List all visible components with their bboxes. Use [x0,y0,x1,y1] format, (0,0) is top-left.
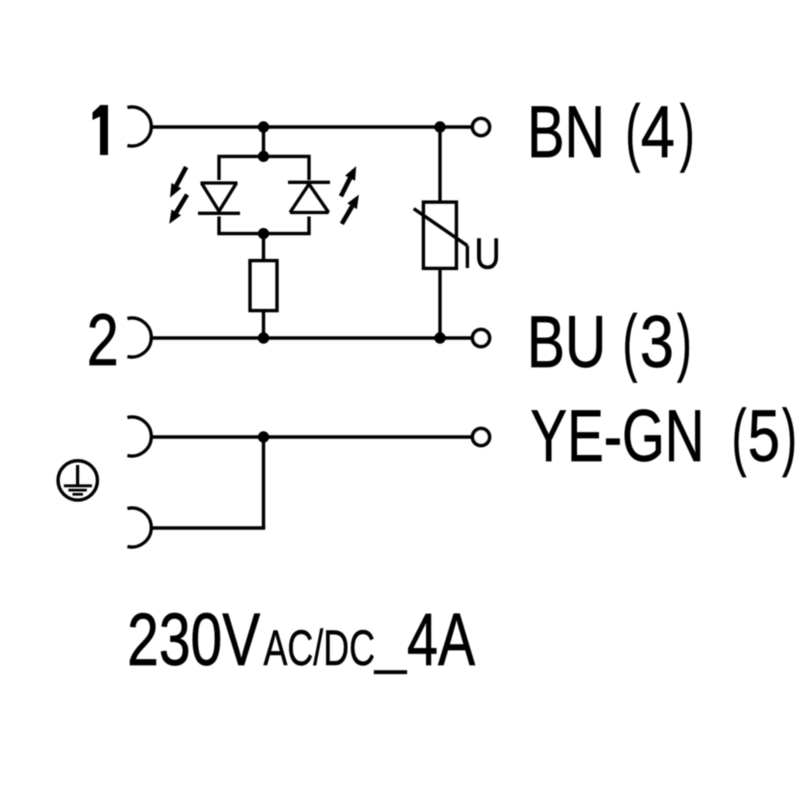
svg-text:(: ( [732,395,747,478]
svg-text:(: ( [623,300,638,383]
resistor R1 [250,261,277,311]
node junction PE wires [258,431,269,442]
wire PE vertical [262,437,265,528]
wire pin2 to BU terminal [151,336,471,339]
wire junction to LED box top [262,127,265,156]
connector contact pin 1 [127,107,151,146]
svg-text:(: ( [626,90,641,173]
LED D2 (right, cathode up) [288,182,330,212]
wire LED box bottom to resistor [262,234,265,261]
svg-text:2: 2 [87,299,119,380]
wire varistor branch lower [438,268,441,338]
terminal YE-GN (5) [473,429,490,446]
svg-text:YE-GN: YE-GN [530,394,704,477]
LED bridge box [219,156,309,233]
protective earth symbol [58,461,97,500]
svg-text:BU: BU [527,300,606,383]
node junction LED box bottom [258,228,269,239]
terminal BN (4) [473,119,490,136]
LED D2 light arrow 1 [341,166,356,196]
connector contact PE lower [127,508,151,547]
svg-text:U: U [475,229,501,278]
svg-text:230V: 230V [127,599,260,682]
varistor RV1 [414,202,468,268]
rating text 230V AC/DC _4A [127,598,475,681]
wire varistor branch upper [438,127,441,202]
pin label 1 [93,105,109,155]
connector contact pin 2 [127,318,151,357]
LED D1 (left, cathode down) [198,183,240,213]
svg-text:BN: BN [527,91,605,173]
connector contact PE upper [127,417,151,456]
wire PE lower horizontal [151,526,265,529]
wire PE to YE-GN terminal [151,435,471,438]
label YE-GN (5) [530,394,796,477]
node junction LED box top [258,151,269,162]
wire resistor to wire2 [262,311,265,338]
svg-text:4: 4 [641,92,675,173]
svg-text:): ) [680,90,695,173]
pin label 2 [87,299,119,380]
terminal BU (3) [473,330,490,347]
svg-text:AC/DC: AC/DC [264,621,376,676]
label BU (3) [527,300,692,383]
LED D2 light arrow 2 [342,195,359,224]
svg-text:5: 5 [748,395,780,477]
node junction wire1 / varistor branch [434,121,445,132]
LED D1 light arrow 2 [169,195,187,224]
svg-text:3: 3 [640,302,674,383]
svg-text:): ) [782,395,797,478]
svg-text:): ) [677,300,692,383]
varistor label U [475,229,501,278]
svg-text:4A: 4A [407,598,475,681]
node junction resistor / wire2 [258,332,269,343]
node junction wire1 / LED branch [258,121,269,132]
LED D1 light arrow 1 [170,167,186,198]
label BN (4) [527,90,694,173]
node junction wire2 / varistor branch [434,332,445,343]
wire pin1 to BN terminal [151,125,471,128]
